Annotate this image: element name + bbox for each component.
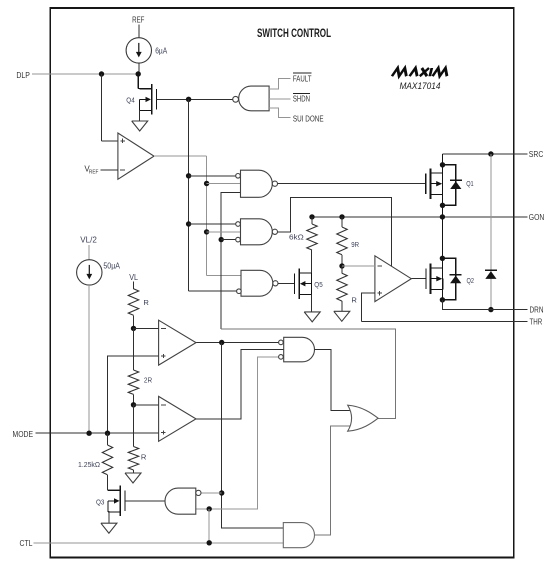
svg-text:R: R: [141, 453, 147, 462]
svg-text:6µA: 6µA: [155, 46, 168, 55]
svg-text:VL: VL: [129, 273, 138, 282]
svg-text:Q1: Q1: [466, 179, 474, 188]
svg-text:6kΩ: 6kΩ: [289, 233, 304, 242]
svg-text:R: R: [143, 298, 149, 307]
svg-text:Q2: Q2: [467, 276, 475, 285]
svg-text:DRN: DRN: [530, 306, 544, 315]
svg-text:SHDN: SHDN: [293, 94, 310, 103]
svg-text:DLP: DLP: [16, 71, 30, 80]
svg-text:Q3: Q3: [96, 498, 104, 507]
svg-text:9R: 9R: [351, 240, 359, 249]
svg-text:2R: 2R: [144, 375, 153, 384]
svg-text:Q5: Q5: [314, 280, 322, 289]
svg-text:Q4: Q4: [126, 96, 134, 105]
svg-text:SRC: SRC: [529, 150, 544, 159]
svg-text:MAX17014: MAX17014: [400, 81, 441, 91]
svg-text:REF: REF: [89, 170, 99, 176]
svg-text:50µA: 50µA: [103, 261, 120, 270]
svg-text:REF: REF: [132, 16, 144, 25]
svg-text:CTL: CTL: [20, 539, 33, 548]
svg-text:1.25kΩ: 1.25kΩ: [78, 460, 100, 469]
svg-text:R: R: [351, 295, 357, 304]
svg-text:THR: THR: [530, 318, 543, 327]
svg-text:SUI DONE: SUI DONE: [293, 115, 324, 124]
svg-text:FAULT: FAULT: [293, 75, 312, 84]
svg-text:GON: GON: [529, 213, 545, 222]
svg-text:MODE: MODE: [13, 430, 34, 439]
svg-text:VL/2: VL/2: [80, 235, 97, 244]
svg-text:SWITCH CONTROL: SWITCH CONTROL: [257, 28, 331, 40]
